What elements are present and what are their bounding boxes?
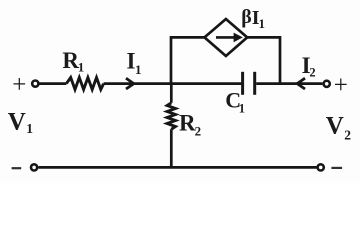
svg-text:R: R — [179, 111, 196, 136]
terminal node bottom-right — [318, 164, 324, 170]
polarity minus bottom-right — [331, 167, 342, 169]
polarity minus bottom-left — [12, 167, 22, 169]
resistor R2 — [167, 103, 175, 130]
wire top-right (capacitor to right terminal) — [256, 82, 322, 85]
resistor R1 — [66, 78, 103, 90]
capacitor C1 left plate — [241, 72, 244, 95]
svg-text:2: 2 — [195, 124, 202, 139]
svg-text:1: 1 — [259, 16, 266, 31]
svg-text:V: V — [326, 112, 344, 139]
svg-text:+: + — [12, 72, 26, 99]
wire top-left (terminal to R1) — [39, 82, 66, 85]
svg-text:1: 1 — [78, 60, 85, 75]
svg-text:2: 2 — [309, 65, 315, 79]
svg-text:1: 1 — [135, 62, 142, 77]
wire R2 branch vertical — [170, 84, 173, 168]
wire from source right vertex down to top rail — [247, 37, 280, 83]
svg-text:1: 1 — [239, 102, 245, 116]
dependent source U1 diamond — [205, 19, 248, 56]
current arrow I2 — [297, 78, 305, 89]
dependent source arrow — [216, 33, 243, 43]
capacitor C1 right plate — [253, 72, 256, 95]
terminal node top-left — [32, 81, 38, 87]
svg-text:2: 2 — [344, 127, 351, 142]
svg-text:V: V — [8, 108, 26, 135]
current arrow I1 — [126, 78, 134, 89]
wire bottom rail — [38, 166, 316, 169]
svg-text:1: 1 — [26, 121, 33, 136]
left riser wire from node to dependent source — [171, 37, 205, 83]
terminal node bottom-left — [31, 164, 37, 170]
svg-text:β: β — [241, 6, 252, 28]
svg-text:+: + — [334, 72, 348, 99]
wire top-middle (R1 to capacitor) — [104, 82, 242, 85]
terminal node top-right — [324, 81, 330, 87]
